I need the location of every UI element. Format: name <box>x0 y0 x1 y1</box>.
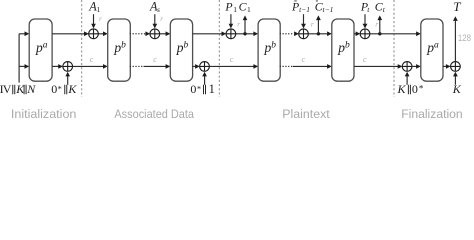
arrowhead down into A1 xor <box>91 24 96 29</box>
wire: Pt down into xor <box>364 14 366 24</box>
arrowhead into 0*||1 xor <box>195 64 200 69</box>
wire: tag T output up <box>454 21 456 62</box>
junction node Ct tap <box>378 32 381 35</box>
arrowhead into p^a bottom <box>25 64 30 69</box>
arrowhead into p^b3 bottom <box>253 64 258 69</box>
wire: Ct-1 up from junction <box>317 20 319 34</box>
svg-text:K: K <box>67 82 77 96</box>
label Pt (last plaintext block) <box>360 0 370 14</box>
svg-text:c: c <box>90 55 94 64</box>
svg-text:C: C <box>239 0 247 14</box>
wire: dotted continuation top rail AD <box>130 33 145 35</box>
svg-text:c: c <box>153 55 157 64</box>
label IV||K||N initial state input <box>0 82 36 96</box>
wire: xor to p^b1 bottom rail <box>73 65 104 67</box>
svg-text:0: 0 <box>51 82 57 96</box>
arrowhead into P1 xor <box>222 31 227 36</box>
wire: K||0* up into xor <box>406 75 408 85</box>
arrowhead into As xor <box>145 31 150 36</box>
svg-text:r: r <box>160 14 163 23</box>
wire: p^b4 to K||0* xor bottom rail <box>354 65 398 67</box>
wire: left input to p^a top rail <box>19 33 25 35</box>
svg-text:c: c <box>363 55 367 64</box>
svg-text:c: c <box>302 55 306 64</box>
svg-text:b: b <box>345 40 350 50</box>
arrowhead into final p^a top <box>416 31 421 36</box>
wire: 0*||K up into xor <box>67 75 69 85</box>
svg-text:Plaintext: Plaintext <box>282 107 330 121</box>
svg-text:s: s <box>157 5 160 14</box>
label T (tag output) <box>453 0 461 14</box>
xor K||0* finalization key addition <box>402 62 412 72</box>
svg-text:1: 1 <box>209 82 215 96</box>
arrowhead down into As xor <box>153 24 158 29</box>
label As (associated data block s) <box>149 0 160 14</box>
svg-text:K: K <box>397 82 407 96</box>
svg-text:r: r <box>311 19 314 28</box>
arrowhead down into Pt-1 xor <box>301 24 306 29</box>
arrowhead up to C1 <box>243 15 248 20</box>
clipped mark above Pt-1 <box>294 0 297 2</box>
clipped mark above Ct-1 <box>316 0 318 2</box>
junction node C1 tap <box>243 32 246 35</box>
svg-text:a: a <box>43 40 48 50</box>
svg-text:K: K <box>452 82 462 96</box>
wire: Pt-1 xor to p^b4 <box>308 33 328 35</box>
arrowhead into 0*||K xor <box>58 64 63 69</box>
wire: dotted continuation top rail PT <box>280 33 294 35</box>
wire: xor to final p^a bottom rail <box>412 65 417 67</box>
svg-text:T: T <box>453 0 461 14</box>
arrowhead into p^b1 bottom <box>103 64 108 69</box>
arrowhead into p^b2 bottom <box>166 64 171 69</box>
wire: left input vertical from IV||K||N <box>18 34 20 83</box>
arrowhead into Pt xor <box>356 31 361 36</box>
svg-text:128: 128 <box>458 33 471 43</box>
wire: Ct up from junction <box>379 20 381 34</box>
permutation box p^b 1 (associated data) <box>108 19 131 81</box>
svg-text:Finalization: Finalization <box>401 107 463 121</box>
wire: C1 up from junction <box>244 20 246 34</box>
wire: P1 down into xor <box>230 14 232 24</box>
wire: K up into xor <box>454 75 456 85</box>
xor A1 absorb <box>89 29 99 39</box>
svg-text:1: 1 <box>233 5 237 14</box>
wire: bottom rail to p^b4 <box>293 65 328 67</box>
svg-text:*: * <box>197 83 201 93</box>
wire: final p^a to K xor <box>443 65 446 67</box>
svg-text:b: b <box>184 40 189 50</box>
wire: p^a to 0*||K xor bottom rail <box>52 65 59 67</box>
permutation box p^b 4 (plaintext) <box>332 19 354 81</box>
svg-text:1: 1 <box>247 5 251 14</box>
label A1 (associated data block 1) <box>88 0 100 14</box>
phase separator dashed line 2 (AD/plaintext) <box>218 0 220 97</box>
xor 0*||K (initialization key addition) <box>63 62 73 72</box>
arrowhead up into K xor <box>453 72 458 77</box>
permutation box p^b 2 (associated data) <box>170 19 192 81</box>
svg-text:0: 0 <box>190 82 196 96</box>
wire: A1 xor to p^b1 <box>98 33 103 35</box>
arrowhead into p^b3 top <box>253 31 258 36</box>
svg-text:C: C <box>375 0 383 14</box>
svg-text:Initialization: Initialization <box>11 107 77 121</box>
wire: A1 down into xor <box>93 14 95 24</box>
svg-text:*: * <box>58 83 62 93</box>
arrowhead up to T <box>453 16 458 21</box>
svg-text:Associated Data: Associated Data <box>114 107 194 121</box>
arrowhead up into 0*||1 xor <box>202 72 207 77</box>
arrowhead into K||0* xor <box>398 64 403 69</box>
wire: Pt xor to final p^a top rail <box>370 33 417 35</box>
label Ct (last ciphertext block) <box>375 0 386 14</box>
arrowhead into p^b2 top <box>166 31 171 36</box>
svg-text:P: P <box>291 0 299 14</box>
svg-text:r: r <box>99 14 102 23</box>
wire: P1 xor to p^b3 <box>236 33 254 35</box>
svg-text:t−1: t−1 <box>323 5 334 14</box>
svg-text:a: a <box>434 40 439 50</box>
svg-text:0: 0 <box>412 82 418 96</box>
label Pt-1 (plaintext block t-1) <box>291 0 310 14</box>
wire: xor to p^b3 bottom rail <box>209 65 254 67</box>
svg-text:b: b <box>121 40 126 50</box>
junction node Ct-1 tap <box>317 32 320 35</box>
wire: 0*||1 up into xor <box>204 75 206 85</box>
arrowhead into p^b4 bottom <box>327 64 332 69</box>
xor P1 encrypt <box>226 29 236 39</box>
arrowhead into p^a top <box>25 31 30 36</box>
arrowhead into final p^a bottom <box>416 64 421 69</box>
xor 0*||1 domain separation <box>200 62 210 72</box>
svg-text:t−1: t−1 <box>299 5 310 14</box>
arrowhead up into 0*||K xor <box>65 72 70 77</box>
label P1 (plaintext block 1) <box>224 0 237 14</box>
wire: p^b2 to P1 xor top rail <box>193 33 222 35</box>
wire: dotted continuation bottom rail PT <box>280 65 293 67</box>
svg-text:*: * <box>419 83 424 93</box>
label 0*||1 domain separation bit <box>190 82 214 96</box>
xor As absorb <box>150 29 160 39</box>
arrowhead down into Pt xor <box>363 24 368 29</box>
wire: p^a to A1 xor top rail <box>52 33 84 35</box>
xor final K addition for tag <box>451 62 461 72</box>
arrowhead into p^b1 top <box>103 31 108 36</box>
svg-text:V: V <box>3 82 12 96</box>
permutation box p^a (finalization) <box>421 19 443 81</box>
wire: left input to p^a bottom rail <box>19 65 25 67</box>
label Ct-1 (ciphertext block t-1) <box>315 0 334 14</box>
wire: As down into xor <box>154 14 156 24</box>
label C1 (ciphertext block 1) <box>239 0 251 14</box>
arrowhead up to Ct-1 <box>316 15 321 20</box>
phase separator dashed line 3 (plaintext/finalization) <box>393 0 395 97</box>
permutation box p^b 3 (plaintext) <box>258 19 280 81</box>
svg-text:P: P <box>224 0 232 14</box>
arrowhead up into K||0* xor <box>405 72 410 77</box>
wire: Pt-1 down into xor <box>303 14 305 24</box>
arrowhead into Pt-1 xor <box>294 31 299 36</box>
phase separator dashed line 1 (init/AD) <box>81 0 83 97</box>
permutation box p^a (initialization) <box>29 19 52 81</box>
arrowhead up to Ct <box>377 15 382 20</box>
svg-text:N: N <box>26 82 36 96</box>
svg-text:b: b <box>271 40 276 50</box>
xor Pt-1 encrypt <box>299 29 309 39</box>
wire: As xor to p^b2 <box>160 33 167 35</box>
label K||0* finalization key <box>397 82 424 96</box>
arrowhead into p^b4 top <box>327 31 332 36</box>
svg-text:r: r <box>375 19 378 28</box>
arrowhead into A1 xor <box>84 31 89 36</box>
wire: bottom rail to p^b2 <box>144 65 167 67</box>
svg-text:p: p <box>35 40 43 55</box>
xor Pt encrypt <box>360 29 370 39</box>
svg-text:c: c <box>230 55 234 64</box>
label K final tag key <box>452 82 462 96</box>
label 0*||K init key addition <box>51 82 77 96</box>
wire: dotted continuation bottom rail AD <box>130 65 144 67</box>
wire: p^b4 to Pt xor <box>354 33 356 35</box>
wire: p^b2 to 0*||1 xor <box>193 65 196 67</box>
arrowhead down into P1 xor <box>229 24 234 29</box>
svg-text:1: 1 <box>96 5 100 14</box>
svg-text:r: r <box>237 19 240 28</box>
arrowhead into final K xor <box>446 64 451 69</box>
